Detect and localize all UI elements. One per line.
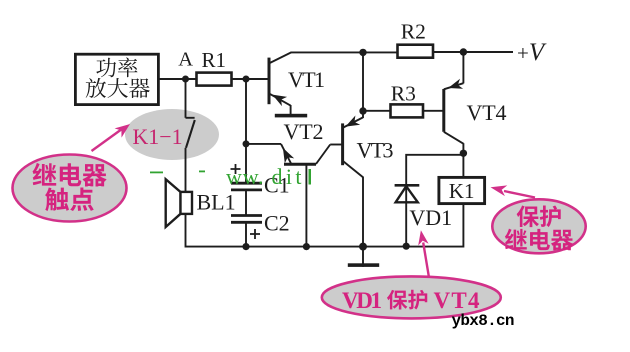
svg-text:VT4: VT4 [467,100,507,125]
resistor R2 [398,20,434,58]
svg-text:R1: R1 [202,48,227,72]
junction dot VT2 emitter / capacitor column [243,140,250,147]
capacitor C1 (electrolytic, + top) [231,164,290,197]
rail junction dots [242,243,409,251]
junction dot R3 left / VT3 emitter [359,107,366,114]
wire amp output to node A to R1 [158,78,196,80]
svg-text:VT1: VT1 [288,67,325,92]
wire x363 column to R3 node [362,52,364,111]
annotation ellipse 保护继电器 [492,199,585,253]
transistor VT2 [281,119,330,248]
wire junction to VT2 emitter [246,143,281,145]
capacitor C2 (electrolytic, + bottom) [231,210,290,239]
wire VT4 emitter junction to VD1 [406,155,463,247]
junction dot R2 right / VT4 collector [460,48,467,55]
node B column down to capacitors [245,79,247,182]
svg-text:K1−1: K1−1 [133,124,183,149]
svg-text:BL1: BL1 [197,190,236,215]
svg-text:VT4: VT4 [434,288,481,313]
ground symbol below rail [348,247,379,267]
transistor VT3 [330,111,393,248]
svg-text:dit: dit [272,164,305,189]
wire between C1 and C2 and C2 to bottom rail [245,190,247,248]
speaker BL1 [166,179,236,247]
bottom rail [186,246,464,248]
svg-text:+V: +V [517,39,547,66]
junction dot top rail x363 [359,49,366,56]
svg-text:VT3: VT3 [357,138,394,163]
diode VD1 [395,185,453,230]
top rail VT1 collector to R2 [291,51,398,53]
svg-text:R2: R2 [401,20,426,44]
wire R1 to VT1 base, node B dot [232,76,270,83]
svg-text:C2: C2 [264,210,290,235]
leader arrow to K1 box [491,185,536,197]
relay coil K1 [439,153,485,247]
node A junction dot [182,76,189,83]
annotation ellipse 继电器触点 [13,155,127,222]
resistor R1 [197,48,232,86]
green watermark [150,164,311,189]
svg-text:VT2: VT2 [284,119,324,144]
leader arrow to VD1 label [418,230,429,277]
wire R2 to +V [433,51,513,53]
svg-text:R3: R3 [391,82,416,106]
transistor VT4 [444,52,507,153]
power amplifier box 功率放大器 [75,54,158,104]
svg-text:ww.: ww. [226,164,264,189]
transistor VT1 [269,52,325,114]
ground bar under VT1 emitter [275,114,307,118]
svg-text:VD1: VD1 [342,288,382,313]
svg-text:ybx8.cn: ybx8.cn [452,312,515,330]
gray highlight ellipse over relay contact [125,109,219,160]
annotation ellipse VD1 保护 VT4 [322,276,501,318]
resistor R3 [363,82,444,118]
svg-text:VD1: VD1 [409,205,452,230]
svg-text:A: A [178,48,193,70]
relay contact K1-1 switch [186,79,195,192]
svg-text:K1: K1 [449,179,475,203]
leader arrow to K1-1 [92,124,131,151]
junction dot VT4 emitter / VD1 / K1 [460,150,467,157]
